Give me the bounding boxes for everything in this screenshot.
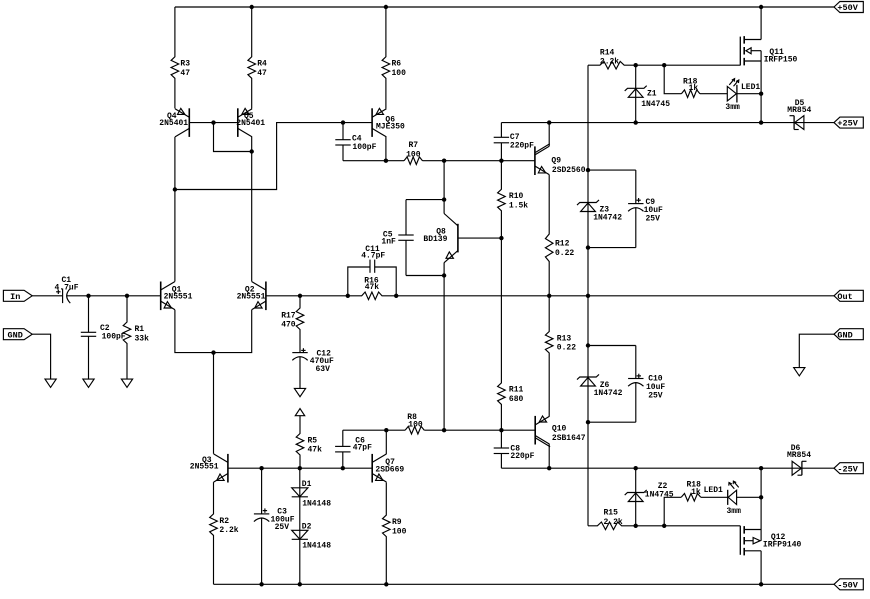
wire mirror base to Q5 collector xyxy=(214,123,254,154)
wire -50V bottom rail xyxy=(214,582,835,586)
svg-text:100pF: 100pF xyxy=(352,143,376,152)
capacitor C11 xyxy=(348,245,399,298)
capacitor C6 xyxy=(335,430,372,468)
port -25V xyxy=(834,463,863,475)
resistor R16 xyxy=(348,276,396,299)
LED LED1 top xyxy=(725,79,763,113)
svg-text:1nF: 1nF xyxy=(381,238,396,247)
resistor R15 xyxy=(588,509,740,530)
capacitor C1 xyxy=(55,276,79,303)
transistor Q8 xyxy=(423,214,458,263)
svg-text:47: 47 xyxy=(180,69,190,78)
diode D5 xyxy=(787,99,811,129)
transistor Q1 xyxy=(161,282,193,311)
wire +50V top rail xyxy=(175,5,834,9)
ground output xyxy=(794,368,805,376)
svg-text:220pF: 220pF xyxy=(510,452,534,461)
transistor Q12 xyxy=(740,468,801,584)
svg-text:47k: 47k xyxy=(308,446,323,455)
resistor R11 xyxy=(498,238,524,430)
zener Z3 xyxy=(577,200,622,223)
port +25V xyxy=(834,117,863,129)
svg-text:2N5401: 2N5401 xyxy=(159,119,188,128)
svg-text:47: 47 xyxy=(257,69,267,78)
svg-text:1k: 1k xyxy=(691,488,701,497)
svg-text:LED1: LED1 xyxy=(741,83,760,92)
svg-text:470: 470 xyxy=(281,321,296,330)
capacitor C12 xyxy=(292,348,334,388)
svg-text:2SD669: 2SD669 xyxy=(375,466,404,475)
svg-text:+50V: +50V xyxy=(837,3,858,13)
transistor Q6 xyxy=(372,108,405,137)
svg-text:MR854: MR854 xyxy=(787,106,811,115)
wire R7 to Q9 base xyxy=(423,159,535,163)
port Out xyxy=(834,290,863,302)
transistor Q10 xyxy=(535,416,586,447)
svg-text:25V: 25V xyxy=(275,523,290,532)
svg-text:R13: R13 xyxy=(557,334,572,343)
LED LED1 bottom xyxy=(704,481,764,516)
svg-text:IRFP9140: IRFP9140 xyxy=(763,540,802,549)
svg-text:D1: D1 xyxy=(302,480,312,489)
svg-text:1N4745: 1N4745 xyxy=(641,100,670,109)
capacitor C3 xyxy=(254,468,295,584)
svg-text:100: 100 xyxy=(392,69,407,78)
svg-text:R10: R10 xyxy=(509,192,524,201)
svg-text:R2: R2 xyxy=(219,517,229,526)
svg-text:1k: 1k xyxy=(689,84,699,93)
svg-text:100: 100 xyxy=(406,150,421,159)
svg-text:4.7uF: 4.7uF xyxy=(55,283,79,292)
wire Q2 base to R17 node xyxy=(266,294,350,298)
svg-text:IRFP150: IRFP150 xyxy=(764,55,798,64)
resistor R17 xyxy=(281,296,304,353)
resistor R1 xyxy=(123,296,149,379)
resistor R2 xyxy=(210,482,239,584)
svg-text:1N4148: 1N4148 xyxy=(302,500,331,509)
wire Q4 collector to Q1 collector xyxy=(173,137,177,282)
svg-text:BD139: BD139 xyxy=(423,235,447,244)
svg-text:Z1: Z1 xyxy=(647,90,657,99)
resistor R4 xyxy=(248,7,267,109)
svg-text:100: 100 xyxy=(408,421,423,430)
svg-text:R17: R17 xyxy=(281,311,296,320)
svg-text:220pF: 220pF xyxy=(510,141,534,150)
wire In to C1 xyxy=(32,295,62,297)
capacitor C9 xyxy=(588,170,663,248)
transistor Q11 xyxy=(740,7,797,123)
resistor R12 xyxy=(545,175,574,296)
zener Z1 xyxy=(625,65,671,122)
svg-text:2.2k: 2.2k xyxy=(604,518,623,527)
svg-text:R15: R15 xyxy=(604,509,619,518)
svg-text:R1: R1 xyxy=(135,325,145,334)
svg-text:R9: R9 xyxy=(392,518,402,527)
svg-text:33k: 33k xyxy=(135,334,150,343)
capacitor C10 xyxy=(588,346,665,423)
capacitor C2 xyxy=(81,296,126,379)
wire Q4-Q5 bases xyxy=(189,120,238,124)
svg-text:3mm: 3mm xyxy=(725,103,740,112)
svg-text:680: 680 xyxy=(509,395,524,404)
resistor R18 top xyxy=(664,65,727,97)
port +50V xyxy=(834,2,863,14)
diode D2 xyxy=(292,522,332,584)
svg-text:R6: R6 xyxy=(392,60,402,69)
diode D6 xyxy=(787,444,811,475)
wire Q9 collector xyxy=(548,123,550,147)
wire mirror output to Q6 base xyxy=(175,120,372,189)
port In xyxy=(3,290,32,302)
svg-text:D2: D2 xyxy=(302,522,312,531)
svg-text:C4: C4 xyxy=(352,134,362,143)
svg-text:1N4745: 1N4745 xyxy=(645,490,674,499)
wire tail to Q3 collector xyxy=(213,353,215,454)
svg-text:Out: Out xyxy=(837,292,852,302)
svg-text:1.5k: 1.5k xyxy=(509,202,528,211)
svg-text:47k: 47k xyxy=(365,283,380,292)
transistor Q4 xyxy=(159,108,189,137)
wire Q6 collector xyxy=(385,137,387,161)
svg-text:-50V: -50V xyxy=(837,580,858,590)
wire -25V line xyxy=(501,466,792,470)
transistor Q5 xyxy=(236,108,265,137)
resistor R10 xyxy=(498,161,529,238)
svg-text:2N5551: 2N5551 xyxy=(190,463,219,472)
svg-text:3mm: 3mm xyxy=(727,507,742,516)
wire C1 to Q1 base xyxy=(66,294,160,298)
svg-text:Q9: Q9 xyxy=(551,157,561,166)
svg-text:1N4148: 1N4148 xyxy=(302,542,331,551)
svg-text:2N5401: 2N5401 xyxy=(236,119,265,128)
svg-text:0.22: 0.22 xyxy=(557,344,576,353)
svg-text:Q10: Q10 xyxy=(552,424,567,433)
svg-text:R12: R12 xyxy=(555,240,570,249)
transistor Q9 xyxy=(535,144,586,175)
wire D6 to -25V port xyxy=(792,467,834,469)
transistor Q2 xyxy=(237,282,266,311)
svg-text:0.22: 0.22 xyxy=(555,249,574,258)
svg-text:R3: R3 xyxy=(180,60,190,69)
svg-text:LED1: LED1 xyxy=(704,486,723,495)
svg-text:R11: R11 xyxy=(509,386,524,395)
svg-text:2N5551: 2N5551 xyxy=(164,293,193,302)
svg-text:2N5551: 2N5551 xyxy=(237,293,266,302)
wire GND port to ground xyxy=(32,334,50,379)
transistor Q7 xyxy=(372,454,404,483)
wire R8 to Q10 base xyxy=(424,428,535,432)
wire output line xyxy=(396,294,834,298)
transistor Q3 xyxy=(190,454,228,483)
wire Q5 collector to Q2 collector xyxy=(251,137,253,282)
svg-text:GND: GND xyxy=(837,330,852,340)
resistor R18 bottom xyxy=(664,480,728,525)
svg-text:+25V: +25V xyxy=(837,119,858,129)
svg-text:100: 100 xyxy=(392,527,407,536)
svg-text:R14: R14 xyxy=(600,49,615,58)
svg-text:2.2k: 2.2k xyxy=(600,58,619,67)
svg-text:100pF: 100pF xyxy=(102,332,126,341)
resistor R5 xyxy=(296,416,322,469)
wire Q3 base line xyxy=(228,466,372,470)
svg-text:1N4742: 1N4742 xyxy=(594,389,623,398)
svg-text:In: In xyxy=(10,292,20,302)
wire +25V line xyxy=(501,120,794,124)
zener Z2 xyxy=(625,468,674,526)
diode D1 xyxy=(292,468,332,530)
capacitor C5 xyxy=(381,200,444,276)
ground C12 xyxy=(294,388,305,396)
wire VAS top line xyxy=(343,159,404,163)
svg-text:R7: R7 xyxy=(409,141,419,150)
svg-text:MR854: MR854 xyxy=(787,451,811,460)
svg-text:R4: R4 xyxy=(257,60,267,69)
resistor R8 xyxy=(405,413,424,434)
ground C2 xyxy=(83,379,94,387)
ground R1 xyxy=(121,379,132,387)
capacitor C7 xyxy=(494,123,534,161)
wire LTP emitters xyxy=(175,310,252,355)
svg-text:2.2k: 2.2k xyxy=(219,526,238,535)
wire C6 top to R8 xyxy=(343,428,405,432)
port GND input xyxy=(3,329,32,341)
svg-text:25V: 25V xyxy=(648,392,663,401)
resistor R6 xyxy=(382,7,406,109)
zener Z6 xyxy=(577,374,623,398)
wire gate bias vertical xyxy=(586,65,590,526)
svg-text:MJE350: MJE350 xyxy=(376,122,405,131)
svg-text:R5: R5 xyxy=(308,436,318,445)
resistor R3 xyxy=(171,7,190,109)
resistor R9 xyxy=(383,482,407,584)
svg-text:47pF: 47pF xyxy=(353,443,372,452)
svg-text:-25V: -25V xyxy=(837,464,858,474)
wire output GND xyxy=(799,334,834,367)
resistor R7 xyxy=(404,141,423,164)
port -50V xyxy=(834,579,863,591)
arrow R5 top xyxy=(295,409,304,416)
svg-text:2SB1647: 2SB1647 xyxy=(552,434,586,443)
svg-text:4.7pF: 4.7pF xyxy=(361,252,385,261)
svg-text:GND: GND xyxy=(8,330,23,340)
wire Q10 collector xyxy=(548,444,550,468)
svg-text:25V: 25V xyxy=(646,215,661,224)
svg-text:63V: 63V xyxy=(316,365,331,374)
capacitor C4 xyxy=(335,123,376,161)
resistor R14 xyxy=(588,49,740,69)
svg-text:2SD2560: 2SD2560 xyxy=(552,166,586,175)
capacitor C8 xyxy=(494,430,535,468)
wire Q8 base to R10/R11 xyxy=(442,236,504,278)
port GND output xyxy=(834,329,863,341)
wire D5 to +25V port xyxy=(794,122,834,124)
resistor R13 xyxy=(545,296,576,416)
svg-text:1N4742: 1N4742 xyxy=(593,214,622,223)
ground input GND xyxy=(45,379,56,387)
wire VAS vertical upper xyxy=(442,161,446,214)
wire VAS vertical lower xyxy=(443,263,445,431)
wire Q7 collector xyxy=(385,430,387,454)
